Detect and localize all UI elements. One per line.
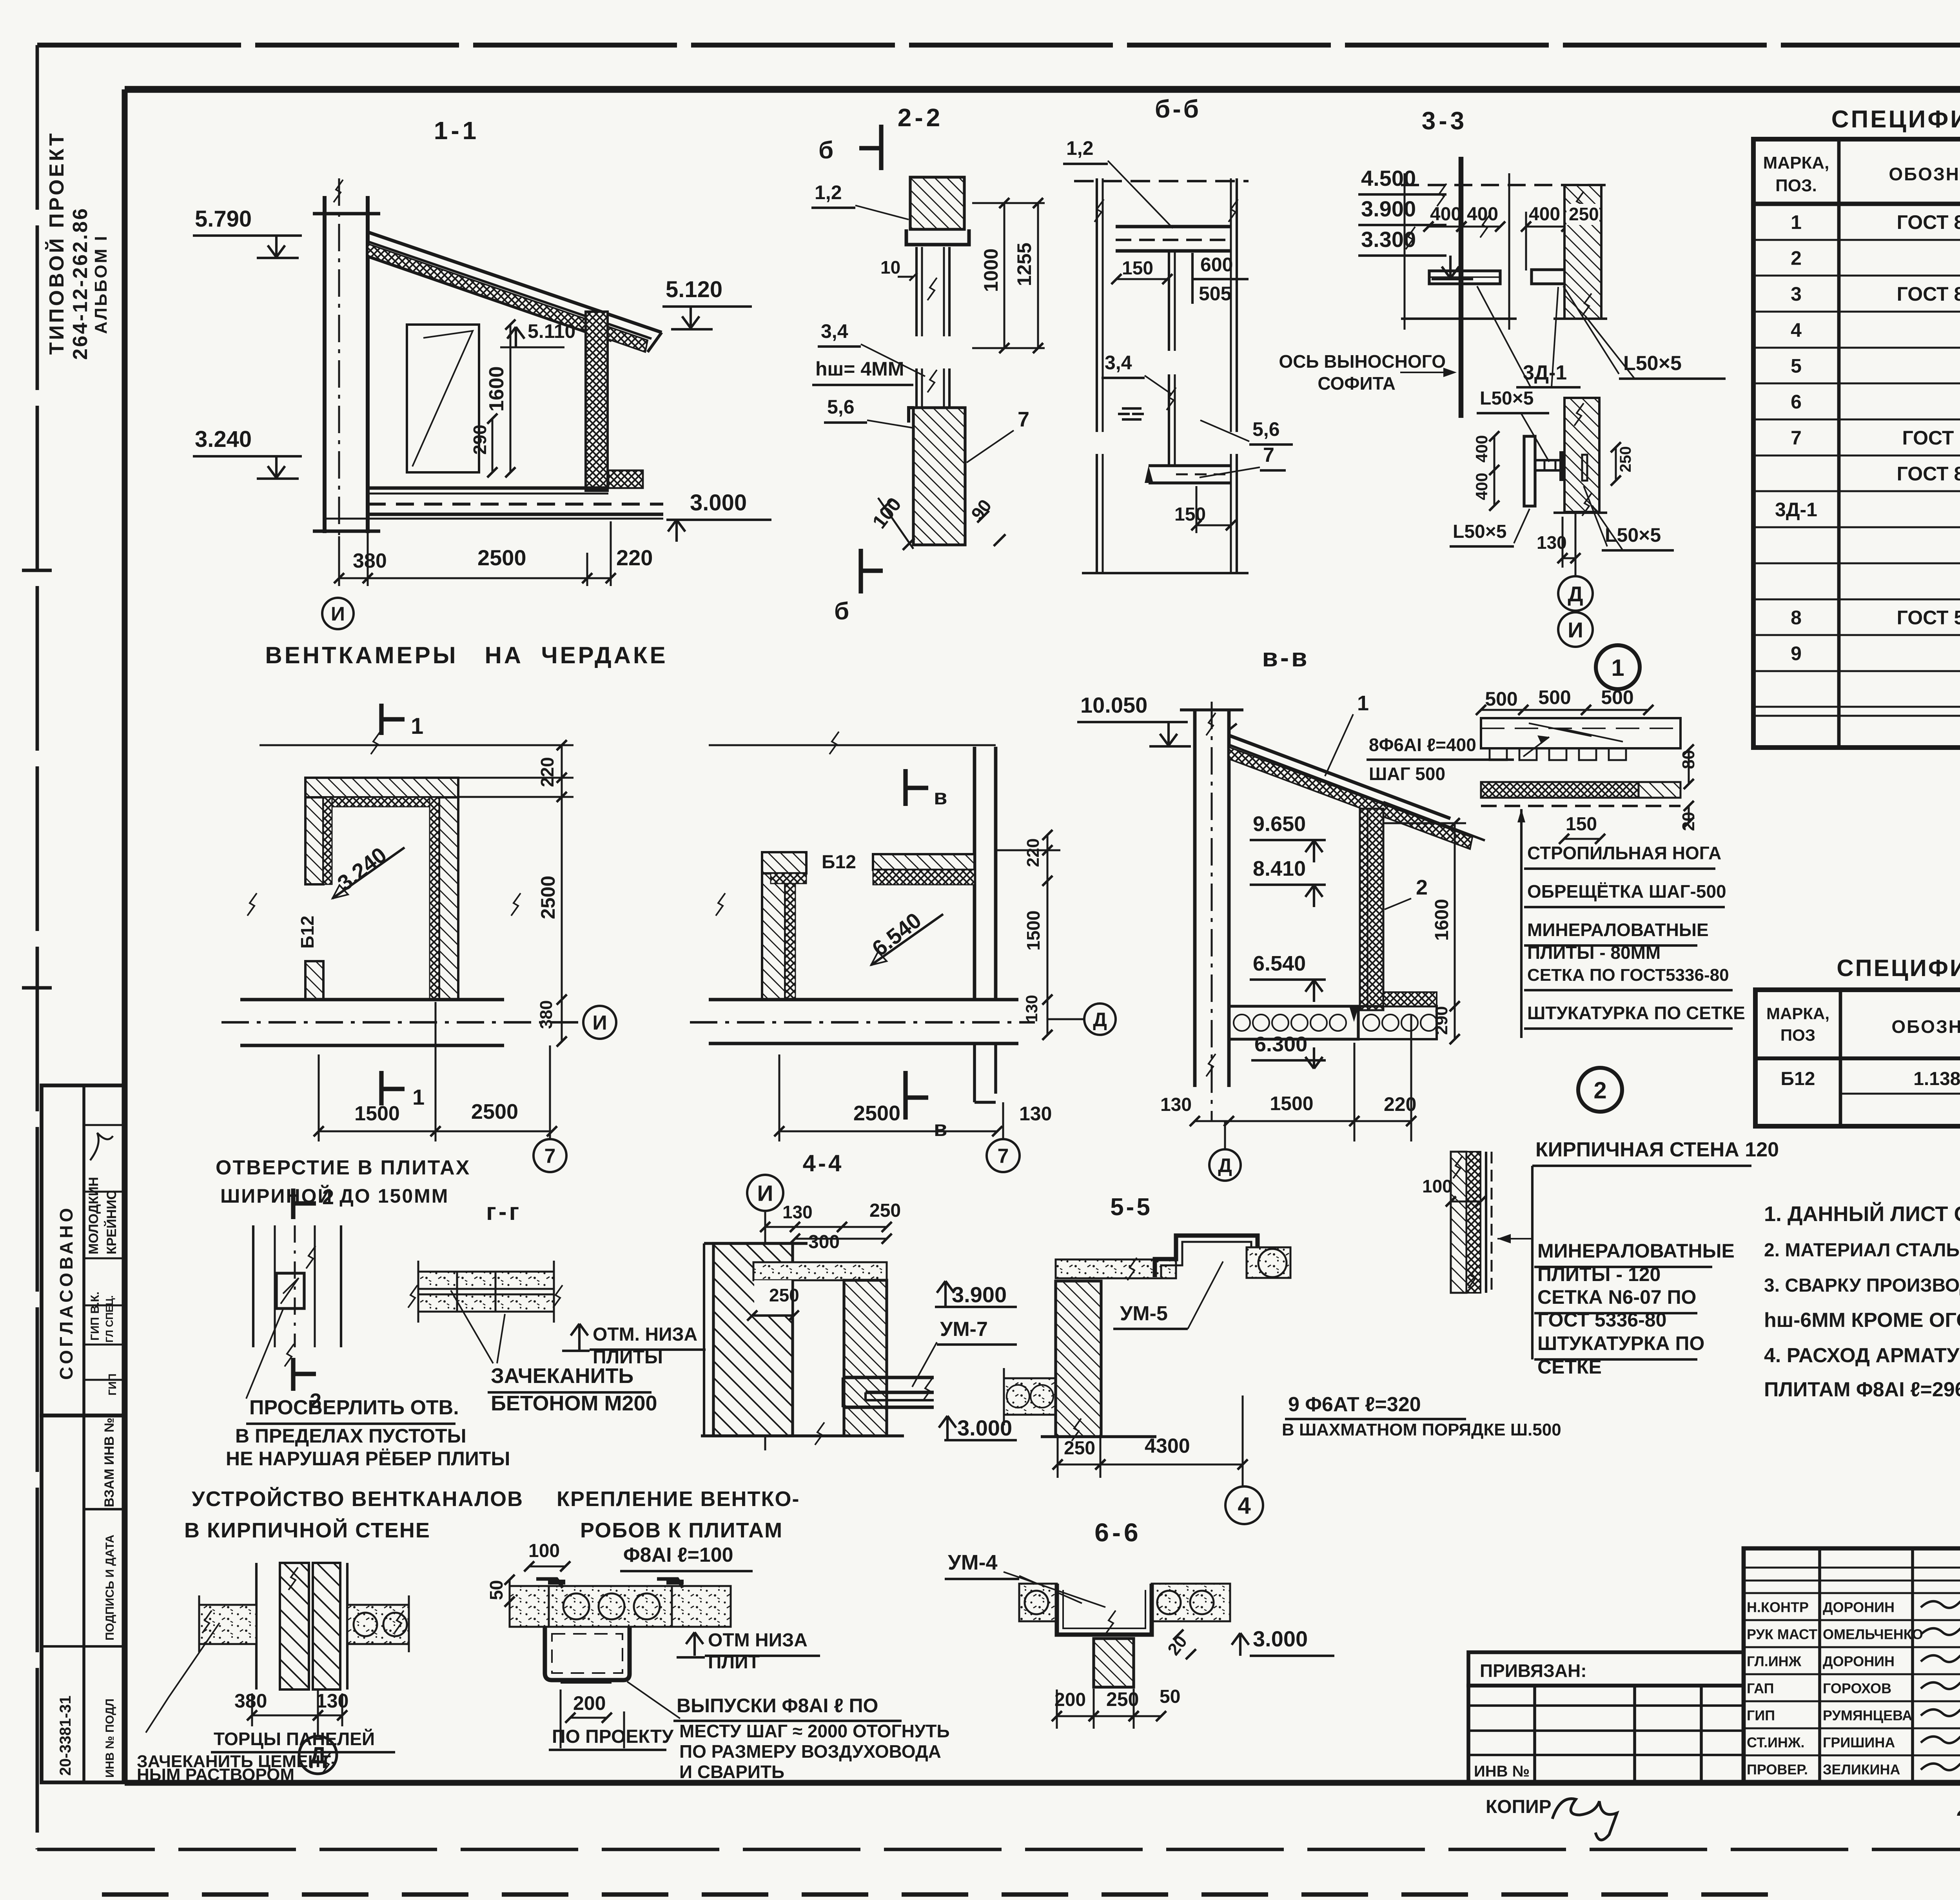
svg-text:290: 290 (1432, 1006, 1451, 1035)
svg-text:Д: Д (1568, 582, 1583, 606)
svg-text:130: 130 (1019, 1103, 1052, 1125)
svg-text:ПОЗ: ПОЗ (1780, 1026, 1815, 1044)
svg-text:АЛЬБОМ I: АЛЬБОМ I (91, 234, 111, 334)
svg-text:130: 130 (782, 1202, 813, 1222)
svg-text:ПЛИТЫ - 80ММ: ПЛИТЫ - 80ММ (1527, 942, 1661, 963)
svg-text:9.650: 9.650 (1253, 812, 1306, 836)
svg-text:1.138-10 В.1: 1.138-10 В.1 (1913, 1069, 1960, 1089)
svg-text:300: 300 (808, 1232, 840, 1252)
svg-text:В ПРЕДЕЛАХ ПУСТОТЫ: В ПРЕДЕЛАХ ПУСТОТЫ (235, 1425, 466, 1447)
svg-text:ГОСТ 5781-82*: ГОСТ 5781-82* (1897, 607, 1960, 629)
svg-text:ГОСТ 103-76*: ГОСТ 103-76* (1902, 427, 1960, 449)
svg-text:ПО ПРОЕКТУ: ПО ПРОЕКТУ (552, 1726, 674, 1747)
svg-text:250: 250 (769, 1285, 799, 1305)
svg-text:ПО РАЗМЕРУ ВОЗДУХОВОДА: ПО РАЗМЕРУ ВОЗДУХОВОДА (679, 1741, 941, 1762)
svg-text:МЕСТУ ШАГ ≈ 2000 ОТОГНУТЬ: МЕСТУ ШАГ ≈ 2000 ОТОГНУТЬ (679, 1721, 950, 1741)
svg-text:Д: Д (1218, 1154, 1232, 1176)
svg-text:в-в: в-в (1262, 643, 1309, 672)
svg-text:3.000: 3.000 (957, 1415, 1012, 1440)
svg-text:150: 150 (1122, 258, 1153, 279)
svg-text:2500: 2500 (471, 1100, 518, 1123)
svg-text:ПЛИТ: ПЛИТ (708, 1652, 760, 1673)
svg-text:264-12-262.86: 264-12-262.86 (69, 207, 92, 360)
svg-text:ШТУКАТУРКА ПО: ШТУКАТУРКА ПО (1537, 1332, 1704, 1354)
svg-text:РУК МАСТ: РУК МАСТ (1747, 1626, 1817, 1642)
svg-text:БЕТОНОМ М200: БЕТОНОМ М200 (491, 1392, 657, 1415)
svg-text:5.120: 5.120 (666, 277, 722, 302)
svg-text:400: 400 (1472, 435, 1491, 463)
svg-text:В ШАХМАТНОМ ПОРЯДКЕ Ш.500: В ШАХМАТНОМ ПОРЯДКЕ Ш.500 (1282, 1420, 1561, 1439)
svg-text:7: 7 (1018, 408, 1029, 431)
svg-text:ВЫПУСКИ Φ8АI ℓ ПО: ВЫПУСКИ Φ8АI ℓ ПО (677, 1695, 878, 1717)
svg-text:ШТУКАТУРКА ПО СЕТКЕ: ШТУКАТУРКА ПО СЕТКЕ (1527, 1003, 1745, 1023)
svg-text:СОФИТА: СОФИТА (1318, 373, 1396, 394)
svg-text:НЫМ РАСТВОРОМ: НЫМ РАСТВОРОМ (137, 1765, 294, 1784)
svg-text:ИНВ № ПОДЛ: ИНВ № ПОДЛ (103, 1699, 116, 1778)
svg-text:130: 130 (316, 1690, 348, 1712)
svg-text:Б12: Б12 (1781, 1069, 1815, 1089)
svg-text:4-4: 4-4 (803, 1150, 844, 1176)
svg-text:7: 7 (998, 1145, 1009, 1168)
svg-text:8: 8 (1791, 607, 1802, 629)
svg-text:2500: 2500 (477, 545, 526, 570)
svg-text:ГИП: ГИП (106, 1374, 118, 1396)
svg-text:100: 100 (1422, 1176, 1452, 1196)
svg-text:Д: Д (1093, 1009, 1107, 1031)
svg-text:2500: 2500 (853, 1102, 900, 1125)
svg-text:МАРКА,: МАРКА, (1766, 1004, 1829, 1023)
svg-text:СТ.ИНЖ.: СТ.ИНЖ. (1747, 1735, 1804, 1751)
svg-text:ПЛИТЫ: ПЛИТЫ (593, 1347, 663, 1368)
svg-text:СОГЛАСОВАНО: СОГЛАСОВАНО (56, 1205, 76, 1380)
svg-text:250: 250 (1064, 1438, 1095, 1459)
svg-text:2. МАТЕРИАЛ СТАЛЬНЫХ КОНСТР: 2. МАТЕРИАЛ СТАЛЬНЫХ КОНСТРУКЦИЙ СТАЛЬ В… (1764, 1239, 1960, 1261)
svg-text:В КИРПИЧНОЙ СТЕНЕ: В КИРПИЧНОЙ СТЕНЕ (184, 1518, 430, 1542)
svg-text:290: 290 (470, 425, 490, 455)
svg-text:L50×5: L50×5 (1623, 352, 1682, 375)
svg-text:380: 380 (537, 1000, 556, 1029)
svg-text:СПЕЦИФИКАЦИЯ МЕТАЛЛА НА ЛИС: СПЕЦИФИКАЦИЯ МЕТАЛЛА НА ЛИСТ (1831, 106, 1960, 133)
svg-text:2: 2 (322, 1185, 334, 1209)
svg-text:КРЕПЛЕНИЕ ВЕНТКО-: КРЕПЛЕНИЕ ВЕНТКО- (557, 1487, 800, 1511)
svg-text:5.110: 5.110 (528, 320, 575, 342)
svg-text:РОБОВ К ПЛИТАМ: РОБОВ К ПЛИТАМ (580, 1519, 783, 1542)
svg-text:СЕТКЕ: СЕТКЕ (1537, 1356, 1602, 1378)
svg-text:2: 2 (1791, 247, 1802, 269)
svg-text:ОМЕЛЬЧЕНКО: ОМЕЛЬЧЕНКО (1823, 1626, 1923, 1642)
svg-text:ОБОЗНАЧЕНИЕ: ОБОЗНАЧЕНИЕ (1891, 1016, 1960, 1037)
svg-text:10: 10 (880, 257, 900, 278)
svg-text:500: 500 (1538, 686, 1571, 708)
svg-text:9: 9 (1791, 642, 1802, 664)
svg-text:500: 500 (1601, 686, 1633, 708)
svg-text:1: 1 (1791, 211, 1802, 233)
svg-text:5: 5 (1791, 355, 1802, 377)
svg-text:6.300: 6.300 (1254, 1033, 1307, 1056)
svg-text:ГОСТ 8509-72*: ГОСТ 8509-72* (1897, 463, 1960, 485)
svg-text:ШИРИНОЙ ДО 150ММ: ШИРИНОЙ ДО 150ММ (220, 1185, 449, 1207)
svg-text:1. ДАННЫЙ ЛИСТ СМ. СОВМЕСТ: 1. ДАННЫЙ ЛИСТ СМ. СОВМЕСТНО С АС-26,27 (1764, 1202, 1960, 1226)
svg-text:ОТВЕРСТИЕ В ПЛИТАХ: ОТВЕРСТИЕ В ПЛИТАХ (216, 1156, 470, 1179)
svg-text:4. РАСХОД АРМАТУРЫ ДЛЯ КРЕ: 4. РАСХОД АРМАТУРЫ ДЛЯ КРЕПЛЕНИЯ ВОЗДУХО… (1764, 1344, 1960, 1367)
svg-text:ПЛИТАМ Φ8АI ℓ=296М - 116,9К: ПЛИТАМ Φ8АI ℓ=296М - 116,9КГ. (1764, 1378, 1960, 1401)
svg-text:130: 130 (1160, 1094, 1192, 1115)
svg-text:hш= 4ММ: hш= 4ММ (815, 358, 904, 380)
svg-text:L50×5: L50×5 (1480, 388, 1534, 409)
svg-text:1600: 1600 (485, 366, 508, 412)
svg-text:в: в (934, 1116, 947, 1141)
svg-text:1,2: 1,2 (1066, 137, 1094, 159)
svg-text:ПРОСВЕРЛИТЬ ОТВ.: ПРОСВЕРЛИТЬ ОТВ. (249, 1396, 459, 1419)
svg-text:г-г: г-г (486, 1198, 521, 1225)
svg-text:1255: 1255 (1013, 243, 1035, 286)
svg-text:ПРИВЯЗАН:: ПРИВЯЗАН: (1480, 1660, 1587, 1681)
svg-text:1500: 1500 (354, 1102, 400, 1125)
svg-text:7: 7 (544, 1145, 556, 1168)
svg-text:ПОДПИСЬ И ДАТА: ПОДПИСЬ И ДАТА (103, 1535, 116, 1640)
svg-text:ВЕНТКАМЕРЫ НА ЧЕРДАКЕ: ВЕНТКАМЕРЫ НА ЧЕРДАКЕ (265, 642, 668, 668)
svg-text:3. СВАРКУ ПРОИЗВОДИТЬ ЭЛЕКТ: 3. СВАРКУ ПРОИЗВОДИТЬ ЭЛЕКТРОДАМИ ТИПА Э… (1764, 1275, 1960, 1296)
svg-text:в: в (934, 784, 947, 809)
svg-text:МОЛОДКИН: МОЛОДКИН (86, 1177, 101, 1254)
svg-text:250: 250 (1617, 446, 1634, 472)
svg-text:5-5: 5-5 (1110, 1194, 1152, 1221)
svg-text:4.500: 4.500 (1361, 166, 1416, 191)
svg-text:3.900: 3.900 (1361, 196, 1416, 221)
svg-text:400: 400 (1467, 204, 1498, 225)
svg-text:200: 200 (1054, 1689, 1086, 1710)
svg-text:6: 6 (1791, 391, 1802, 413)
svg-text:1: 1 (1611, 655, 1624, 681)
svg-text:СЕТКА N6-07 ПО: СЕТКА N6-07 ПО (1537, 1286, 1696, 1308)
svg-text:ТОРЦЫ ПАНЕЛЕЙ: ТОРЦЫ ПАНЕЛЕЙ (214, 1729, 375, 1749)
svg-text:380: 380 (234, 1690, 267, 1712)
svg-text:ПОЗ.: ПОЗ. (1775, 176, 1817, 195)
svg-text:6.540: 6.540 (1253, 952, 1306, 975)
svg-text:7: 7 (1263, 444, 1274, 466)
svg-text:ОТМ НИЗА: ОТМ НИЗА (708, 1630, 808, 1651)
svg-text:3.000: 3.000 (1253, 1626, 1308, 1651)
svg-text:ПРОВЕР.: ПРОВЕР. (1747, 1762, 1808, 1778)
svg-text:ЗЕЛИКИНА: ЗЕЛИКИНА (1823, 1762, 1900, 1778)
svg-text:1500: 1500 (1270, 1092, 1313, 1114)
svg-text:5,6: 5,6 (827, 396, 855, 418)
svg-text:б-б: б-б (1155, 95, 1201, 123)
svg-text:ГОСТ 5336-80: ГОСТ 5336-80 (1537, 1309, 1666, 1331)
svg-text:7: 7 (1791, 427, 1802, 449)
svg-text:20-3381-31: 20-3381-31 (57, 1695, 74, 1776)
svg-text:ГОСТ 8509-72*: ГОСТ 8509-72* (1897, 283, 1960, 305)
svg-text:КИРПИЧНАЯ СТЕНА 120: КИРПИЧНАЯ СТЕНА 120 (1535, 1138, 1779, 1161)
svg-text:КОПИР: КОПИР (1486, 1797, 1552, 1817)
svg-text:500: 500 (1485, 688, 1517, 710)
svg-text:2: 2 (1593, 1077, 1606, 1103)
svg-text:2-2: 2-2 (898, 103, 944, 132)
svg-text:3.240: 3.240 (195, 426, 252, 452)
svg-text:ДОРОНИН: ДОРОНИН (1823, 1599, 1895, 1615)
svg-text:б: б (818, 137, 833, 164)
svg-text:И: И (331, 603, 345, 625)
svg-text:И СВАРИТЬ: И СВАРИТЬ (679, 1762, 784, 1782)
svg-text:ОБОЗНАЧЕНИЕ: ОБОЗНАЧЕНИЕ (1889, 164, 1960, 184)
svg-text:НЕ НАРУШАЯ РЁБЕР ПЛИТЫ: НЕ НАРУШАЯ РЁБЕР ПЛИТЫ (226, 1448, 510, 1470)
svg-text:И: И (1568, 618, 1583, 642)
svg-text:1-1: 1-1 (434, 116, 480, 145)
svg-text:220: 220 (616, 545, 653, 570)
svg-text:3,4: 3,4 (821, 320, 848, 342)
svg-text:ГРИШИНА: ГРИШИНА (1823, 1735, 1895, 1751)
svg-text:9 Φ6АТ ℓ=320: 9 Φ6АТ ℓ=320 (1288, 1393, 1421, 1416)
svg-text:8.410: 8.410 (1253, 857, 1306, 880)
svg-text:б: б (834, 598, 849, 625)
svg-text:250: 250 (869, 1200, 901, 1221)
svg-text:6-6: 6-6 (1094, 1518, 1141, 1547)
svg-text:УСТРОЙСТВО ВЕНТКАНАЛОВ: УСТРОЙСТВО ВЕНТКАНАЛОВ (192, 1487, 523, 1511)
svg-text:ГЛ.ИНЖ: ГЛ.ИНЖ (1747, 1653, 1802, 1670)
svg-text:РУМЯНЦЕВА: РУМЯНЦЕВА (1823, 1708, 1912, 1724)
svg-text:ОБРЕЩЁТКА ШАГ-500: ОБРЕЩЁТКА ШАГ-500 (1527, 881, 1726, 902)
svg-text:2500: 2500 (537, 876, 559, 919)
svg-text:ВЗАМ ИНВ №: ВЗАМ ИНВ № (102, 1417, 117, 1507)
svg-text:И: И (757, 1181, 773, 1206)
svg-text:4: 4 (1238, 1493, 1251, 1519)
svg-text:3: 3 (1791, 283, 1802, 305)
svg-text:hш-6ММ КРОМЕ ОГОВОРЕННЫХ.: hш-6ММ КРОМЕ ОГОВОРЕННЫХ. (1764, 1309, 1960, 1332)
svg-text:1: 1 (1357, 691, 1369, 715)
svg-text:200: 200 (573, 1692, 606, 1714)
svg-text:МАРКА,: МАРКА, (1763, 153, 1829, 172)
svg-text:ЗАЧЕКАНИТЬ: ЗАЧЕКАНИТЬ (491, 1364, 633, 1388)
svg-text:3Д-1: 3Д-1 (1523, 361, 1567, 384)
svg-text:600: 600 (1200, 254, 1233, 276)
svg-text:400: 400 (1472, 473, 1491, 500)
svg-text:50: 50 (486, 1580, 506, 1600)
svg-text:Φ8АI ℓ=100: Φ8АI ℓ=100 (623, 1544, 733, 1566)
svg-text:3-3: 3-3 (1422, 107, 1468, 135)
svg-text:150: 150 (1566, 814, 1597, 835)
svg-text:50: 50 (1160, 1686, 1180, 1707)
svg-text:1,2: 1,2 (815, 181, 842, 203)
svg-text:100: 100 (528, 1541, 560, 1561)
svg-text:ШАГ 500: ШАГ 500 (1369, 764, 1445, 784)
svg-text:ИНВ №: ИНВ № (1474, 1763, 1530, 1780)
svg-text:150: 150 (1174, 504, 1206, 525)
svg-text:5.790: 5.790 (195, 206, 252, 232)
svg-text:УМ-4: УМ-4 (948, 1551, 998, 1574)
svg-text:1600: 1600 (1432, 899, 1452, 941)
svg-text:1000: 1000 (980, 249, 1002, 292)
svg-text:МИНЕРАЛОВАТНЫЕ: МИНЕРАЛОВАТНЫЕ (1527, 920, 1709, 940)
svg-text:ДОРОНИН: ДОРОНИН (1823, 1653, 1895, 1670)
svg-text:КРЕЙНИС: КРЕЙНИС (104, 1190, 119, 1254)
svg-text:4: 4 (1791, 319, 1802, 341)
svg-text:8Φ6АI ℓ=400: 8Φ6АI ℓ=400 (1369, 735, 1476, 755)
svg-text:3,4: 3,4 (1105, 352, 1132, 374)
svg-text:10.050: 10.050 (1080, 693, 1147, 717)
svg-text:ТИПОВОЙ ПРОЕКТ: ТИПОВОЙ ПРОЕКТ (45, 131, 68, 355)
svg-text:5,6: 5,6 (1252, 418, 1280, 440)
svg-text:1: 1 (411, 713, 423, 739)
svg-text:УМ-7: УМ-7 (940, 1318, 988, 1341)
svg-text:3Д-1: 3Д-1 (1775, 499, 1817, 521)
svg-text:130: 130 (1022, 995, 1041, 1022)
svg-text:220: 220 (1024, 838, 1043, 867)
svg-text:ГАП: ГАП (1747, 1680, 1774, 1697)
svg-text:ОСЬ ВЫНОСНОГО: ОСЬ ВЫНОСНОГО (1279, 351, 1446, 372)
svg-text:400: 400 (1430, 204, 1461, 225)
svg-text:ОТМ. НИЗА: ОТМ. НИЗА (593, 1324, 697, 1345)
svg-text:3.300: 3.300 (1361, 227, 1416, 252)
svg-text:МИНЕРАЛОВАТНЫЕ: МИНЕРАЛОВАТНЫЕ (1537, 1240, 1735, 1262)
svg-text:1500: 1500 (1023, 911, 1044, 951)
svg-text:L50×5: L50×5 (1453, 521, 1506, 542)
svg-text:ГОСТ 8240-72*: ГОСТ 8240-72* (1897, 211, 1960, 233)
svg-text:4300: 4300 (1145, 1435, 1190, 1457)
svg-text:ПЛИТЫ - 120: ПЛИТЫ - 120 (1537, 1263, 1661, 1285)
svg-text:2: 2 (1416, 876, 1428, 899)
svg-text:СЕТКА ПО ГОСТ5336-80: СЕТКА ПО ГОСТ5336-80 (1527, 965, 1729, 985)
svg-text:ГОРОХОВ: ГОРОХОВ (1823, 1680, 1891, 1697)
svg-text:ГИП: ГИП (1747, 1708, 1775, 1724)
svg-text:220: 220 (537, 757, 557, 787)
svg-text:400: 400 (1529, 204, 1560, 225)
svg-text:250: 250 (1569, 204, 1599, 224)
svg-text:3.000: 3.000 (690, 490, 747, 515)
svg-text:Н.КОНТР: Н.КОНТР (1747, 1599, 1809, 1615)
svg-text:СПЕЦИФИКАЦИЯ ЭЛЕМЕНТОВ НА В: СПЕЦИФИКАЦИЯ ЭЛЕМЕНТОВ НА ВЕНТКАМЕРУ (1837, 955, 1960, 981)
svg-text:Б12: Б12 (297, 916, 318, 949)
svg-text:3.900: 3.900 (952, 1282, 1007, 1307)
svg-text:ГИП В.К.: ГИП В.К. (89, 1292, 102, 1341)
svg-text:1: 1 (412, 1085, 425, 1109)
svg-text:УМ-5: УМ-5 (1120, 1302, 1168, 1325)
svg-text:505: 505 (1199, 283, 1231, 305)
svg-text:И: И (592, 1012, 607, 1034)
svg-text:СТРОПИЛЬНАЯ НОГА: СТРОПИЛЬНАЯ НОГА (1527, 843, 1721, 863)
svg-text:Б12: Б12 (822, 852, 856, 873)
svg-text:380: 380 (353, 550, 387, 572)
svg-text:ГЛ СПЕЦ.: ГЛ СПЕЦ. (103, 1295, 115, 1343)
